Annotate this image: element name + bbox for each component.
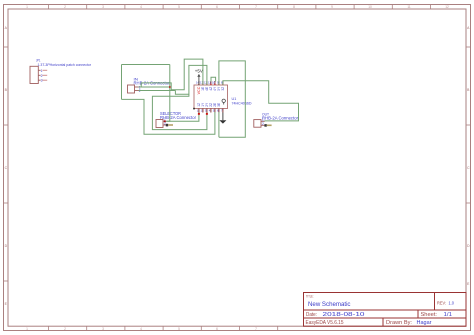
svg-text:RHB-2A Connector: RHB-2A Connector [262,115,299,120]
svg-text:Hagar: Hagar [417,320,432,326]
svg-text:REV:: REV: [437,301,446,306]
svg-text:+5V: +5V [195,69,203,74]
wire branch from left loop to chip pin5 [122,99,215,134]
svg-text:10: 10 [368,5,372,9]
chip U1 top pin numbers [196,81,223,85]
svg-text:1: 1 [41,69,43,73]
svg-text:2: 2 [41,74,43,78]
connector IN pin 2 [135,89,141,93]
svg-text:5: 5 [178,327,180,331]
svg-text:5: 5 [178,5,180,9]
svg-text:4: 4 [140,5,142,9]
svg-text:Date:: Date: [306,312,317,318]
wire top staple pins 11-10 [211,77,216,81]
wire selector box net chip pin3 [152,94,207,129]
chip U1 inner bottom pin names (rotated) [197,102,221,107]
junction dot chip bottom pin3 [206,113,208,115]
svg-text:TITLE:: TITLE: [306,295,314,299]
svg-text:8: 8 [293,5,295,9]
chip U1 top pin red marks [198,84,223,85]
wire IN pin2 horizontal [139,90,176,92]
wire IN pin1 staircase up [141,59,203,90]
wire chip pin6 to bottom bus [218,112,220,137]
connector JP1 pin 1 [38,69,47,73]
svg-text:9: 9 [331,5,333,9]
connector SELECTOR pin 2 [163,122,166,126]
chip U1 inner top pin names (rotated) [201,86,225,91]
junction dot selector pin1 [164,120,166,122]
wire net1 selector pin1 vertical [166,65,170,122]
wire top pin8 to OUT pin1 [223,81,299,122]
border tick numbers bottom [26,327,257,331]
connector JP1 body [30,66,38,83]
border tick numbers top [26,5,449,9]
border ticks right [466,47,471,203]
border row letters right [467,26,470,286]
svg-text:2: 2 [64,327,66,331]
ground flag at SELECTOR pin 2 [166,124,173,127]
svg-text:VCC: VCC [197,86,201,94]
border ticks left [4,47,9,281]
svg-text:1: 1 [26,327,28,331]
svg-text:11: 11 [407,5,411,9]
svg-text:1.0: 1.0 [449,301,455,306]
svg-text:Drawn By:: Drawn By: [386,320,412,326]
chip U1 bottom pin numbers [197,109,223,113]
title block [304,293,467,327]
svg-text:6: 6 [216,5,218,9]
connector SELECTOR body [156,120,163,128]
ground flag at OUT pin 2 [264,124,271,127]
connector OUT pin 2 [261,122,265,126]
svg-text:1: 1 [26,5,28,9]
border ticks top [49,5,431,10]
wire IN pin2 staircase to top pin 12 [175,65,207,94]
wire right loop top pin9 down to bottom bus [219,61,245,137]
chip U1 bottom pin stubs [199,109,223,113]
connector IN pin 1 [135,85,141,89]
svg-text:6: 6 [216,327,218,331]
svg-text:2: 2 [262,122,264,126]
border ticks bottom [49,326,278,331]
svg-text:7: 7 [255,5,257,9]
svg-text:3Z: 3Z [221,87,225,91]
svg-text:EasyEDA V5.6.15: EasyEDA V5.6.15 [306,320,344,326]
border row letters left [5,26,8,306]
connector IN body [128,85,135,93]
ground symbol below chip pin 7 [219,113,226,124]
chip U1 anchor dot [193,108,195,110]
svg-text:3: 3 [102,327,104,331]
svg-text:2018-08-10: 2018-08-10 [323,312,365,318]
svg-text:2: 2 [64,5,66,9]
svg-text:New Schematic: New Schematic [308,301,351,308]
svg-text:74HC4066D: 74HC4066D [232,102,252,106]
svg-text:Sheet:: Sheet: [421,312,438,318]
junction dot IN pin1 net [169,86,171,88]
chip U1 GND pin circle glyph [222,99,225,104]
wire net1 left vertical [121,65,123,100]
wire IN pin1 horizontal [139,86,170,88]
svg-text:3: 3 [41,79,43,83]
svg-text:JP1: JP1 [36,59,41,63]
wires (green) [122,59,299,137]
power flag +5V bar and stem [197,74,200,85]
chip U1 top pin stubs [199,81,223,85]
connector JP1 pin 2 [38,74,47,78]
connector OUT pin 1 [261,118,265,122]
connector SELECTOR pin 1 [163,118,166,122]
svg-text:1.3T-3PHorizontal patch connec: 1.3T-3PHorizontal patch connector [38,63,92,67]
wire net1 left big loop horizontal top [122,64,170,66]
svg-text:7: 7 [255,327,257,331]
wire chip pin1 to selector pin1 [166,112,199,121]
svg-text:12: 12 [445,5,449,9]
svg-text:3: 3 [102,5,104,9]
connector OUT body [254,120,261,128]
svg-text:1/1: 1/1 [444,312,453,318]
connector JP1 pin 3 [38,79,47,83]
chip U1 inner left red pin name VCC (rotated) [197,86,201,94]
junction dot chip bottom pin1 [198,113,200,115]
svg-text:4: 4 [140,327,142,331]
op chip U1 74HC4066D body [194,85,228,109]
svg-text:U1: U1 [232,96,238,101]
